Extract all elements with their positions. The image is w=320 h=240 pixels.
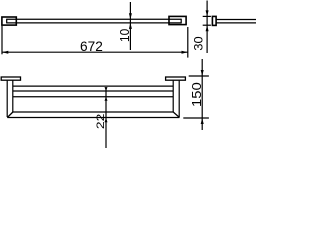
left post front edge (6, 81, 8, 117)
arrow up to bar bottom (129, 23, 132, 29)
bar left end cap (6, 19, 8, 24)
arrow right (182, 51, 188, 54)
bottom rail left end diagonal (7, 112, 13, 118)
arrow up to bottom tick (201, 118, 204, 124)
extension tick bottom (203, 24, 211, 26)
extension line top (from flange top) (189, 75, 209, 77)
wall plate (side view) (212, 16, 216, 25)
extension line left (1, 26, 3, 55)
dim line 150 (201, 59, 203, 130)
right post back edge (178, 81, 180, 117)
arrow down to top tick (201, 70, 204, 76)
bar right end cap (180, 19, 182, 24)
top rail front bottom edge (13, 96, 173, 98)
left wall plate (top view) (2, 17, 16, 25)
svg-text:672: 672 (80, 39, 103, 54)
bar (side view) bottom edge (216, 22, 256, 24)
arrow up to rail line 3 (105, 97, 108, 101)
extension line right (187, 27, 189, 58)
bar (top view) top edge (7, 18, 182, 20)
arrow up to bottom rail bottom (105, 118, 108, 122)
extension line bottom (from bottom rail) (183, 117, 209, 119)
svg-text:22: 22 (95, 114, 107, 130)
svg-text:10: 10 (117, 29, 132, 42)
arrow down to rail line 2 (105, 87, 108, 91)
bar (side view) top edge (216, 19, 256, 21)
bar (top view) bottom edge (7, 22, 182, 24)
right wall plate (top view) (169, 16, 186, 24)
dim line 10 (129, 2, 131, 50)
arrow up to plate bottom (206, 25, 209, 31)
right post left edge (172, 81, 174, 112)
svg-text:30: 30 (192, 36, 206, 50)
left flange (1, 77, 20, 80)
extension tick top (203, 15, 211, 17)
dimension line 672 (2, 51, 188, 53)
arrow down to plate top (206, 10, 209, 16)
right flange (166, 77, 186, 80)
bottom rail top edge (13, 111, 173, 113)
bottom rail right end diagonal (173, 112, 179, 118)
dim line 22 (105, 87, 107, 148)
left post right edge (12, 81, 14, 112)
top rail back top edge (13, 85, 173, 87)
arrow left (2, 51, 8, 54)
svg-text:150: 150 (190, 82, 204, 107)
arrow down to bar top (129, 13, 132, 19)
dim line 30 (206, 1, 208, 54)
bottom rail bottom edge (7, 117, 179, 119)
top rail front top edge (13, 90, 173, 92)
